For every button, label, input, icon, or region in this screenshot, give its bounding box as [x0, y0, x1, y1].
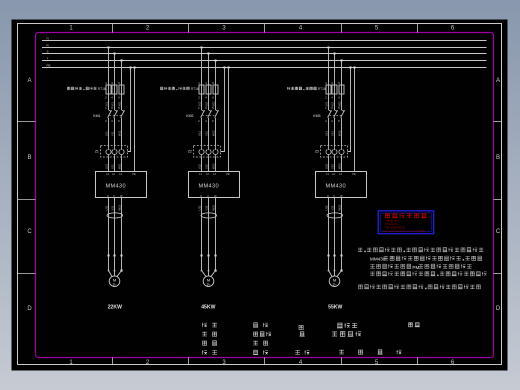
wire numbers fuse to contactor branch1 [105, 101, 121, 107]
wire phase3 bus to fuse FU3 [341, 61, 343, 86]
filter Z2 coil 2 [206, 146, 211, 158]
title block column 2 labels (process/standardization/approve/date) [253, 323, 271, 355]
junction dot bus tap phase2 branch2 [208, 53, 210, 55]
wire PE bus to filter Z1 [128, 68, 131, 152]
filter Z3 coil 2 [332, 146, 337, 158]
wire phase3 fuse to contactor KM1 [121, 94, 123, 110]
wire numbers U13 V13 W13 [324, 130, 341, 136]
wire phase1 fuse to contactor KM1 [108, 94, 110, 110]
wire phase2 bus to fuse FU1 [114, 54, 116, 86]
svg-text:S: S [47, 49, 49, 53]
title block drawing name text (hydraulic pump electric control system) [332, 323, 361, 336]
wire phase1 cable to motor M3 [328, 256, 330, 271]
svg-text:B: B [496, 155, 500, 161]
wire phase1 filter to drive U3 [328, 157, 330, 172]
wire phase3 cable to motor M2 [215, 256, 217, 271]
svg-text:U22: U22 [197, 164, 201, 169]
wire phase1 bus to fuse FU2 [201, 48, 203, 86]
wire phase3 contactor to filter Z1 [121, 118, 123, 146]
fuse FU3b [332, 85, 337, 94]
pin numbers 2 4 6 fuse FU1 [105, 96, 120, 100]
contactor KM3 main contact pole 1 [328, 110, 332, 118]
wire phase1 contactor to filter Z2 [201, 118, 203, 146]
motor M1 lead-in wires [109, 271, 122, 277]
contactor KM2 main contact pole 2 [208, 110, 212, 118]
wire phase2 bus to fuse FU3 [334, 54, 336, 86]
wire phase2 fuse to contactor KM1 [114, 94, 116, 110]
motor M1 terminal marks [108, 270, 123, 272]
wire phase2 contactor to filter Z3 [334, 118, 336, 146]
inner border (plot margin) [36, 33, 494, 358]
wire phase1 drive U3 output [328, 198, 330, 256]
contactor KM1 main contact pole 3 [121, 110, 125, 118]
contactor KM2 linkage dashed line [203, 114, 217, 116]
bus line R [42, 47, 487, 49]
pin numbers 1 3 5 fuse FU3 [325, 81, 340, 85]
title block drawing-name field label [299, 325, 305, 336]
watermark stamp title text [385, 213, 426, 217]
junction dot cable joint phase3 branch3 [341, 255, 343, 257]
frame column numbers bottom [69, 360, 455, 366]
svg-text:PE: PE [352, 173, 356, 176]
pin numbers 2 4 6 contactor KM1 [105, 119, 120, 123]
svg-text:MM430: MM430 [326, 184, 346, 190]
title block drawing-number field label [409, 323, 420, 327]
junction dot PE2 tap branch3 [354, 67, 356, 69]
junction dot cable joint phase2 branch1 [114, 255, 116, 257]
note text line 2 [370, 256, 482, 262]
frame column tick marks bottom [113, 358, 418, 365]
junction dot bus tap phase1 branch1 [108, 47, 110, 49]
drive U3 MM430 inverter [316, 172, 367, 198]
svg-text:V32: V32 [204, 205, 208, 210]
filter Z2 coil 3 [213, 146, 218, 158]
junction dot cable joint phase1 branch2 [201, 255, 203, 257]
wire phase3 bus to fuse FU2 [215, 61, 217, 86]
bus line N [42, 40, 487, 42]
fuse FU3a [326, 85, 331, 94]
svg-text:B: B [27, 155, 31, 161]
svg-text:KM1: KM1 [93, 114, 100, 118]
wire phase1 filter to drive U1 [108, 157, 110, 172]
junction dot cable joint phase3 branch1 [121, 255, 123, 257]
svg-text:W33: W33 [337, 204, 341, 210]
junction dot bus tap phase2 branch1 [114, 53, 116, 55]
wire numbers U11 V11 W11 [104, 130, 121, 136]
contactor KM3 linkage dashed line [330, 114, 343, 116]
pin numbers 1 3 5 fuse FU1 [105, 81, 120, 85]
svg-text:PE: PE [47, 63, 51, 67]
wire phase2 filter to drive U1 [114, 157, 116, 172]
svg-text:C: C [27, 229, 32, 235]
svg-text:W31: W31 [117, 204, 121, 210]
wire PE bus to drive U1 PE terminal [134, 68, 136, 172]
svg-text:V22: V22 [204, 164, 208, 169]
watermark stamp border [378, 211, 433, 234]
wire phase3 drive U2 output [215, 198, 217, 256]
drive U1 MM430 inverter [96, 172, 147, 198]
output ring core L1 [107, 213, 123, 218]
svg-text:A: A [27, 78, 31, 84]
junction dot bus tap phase1 branch2 [201, 47, 203, 49]
drive U1 input terminal labels L1 L2 L3 [106, 173, 122, 176]
wire numbers fuse to contactor branch3 [325, 101, 341, 107]
wire phase1 contactor to filter Z1 [108, 118, 110, 146]
svg-text:U: U [200, 195, 202, 198]
svg-text:A: A [496, 78, 500, 84]
pin numbers 2 4 6 fuse FU3 [325, 96, 340, 100]
wire phase1 filter to drive U2 [201, 157, 203, 172]
fuse FU1a [106, 85, 111, 94]
wire phase1 bus to fuse FU3 [328, 48, 330, 86]
wire phase1 drive U1 output [108, 198, 110, 256]
svg-text:V33: V33 [330, 205, 334, 210]
title block column 1 labels (design/draft/check/audit) [202, 323, 217, 355]
svg-text:W21: W21 [117, 163, 121, 169]
filter Z3 dashed enclosure [321, 146, 348, 158]
junction dot PE tap branch3 [350, 67, 352, 69]
value label fuse group FU1 [67, 87, 106, 91]
wire numbers U12 V12 W12 [197, 130, 215, 136]
motor M3 terminal marks [328, 270, 343, 272]
svg-text:Photoshop: Photoshop [385, 222, 398, 226]
svg-text:45KW: 45KW [201, 305, 215, 311]
wire numbers U21 V21 W21 [104, 163, 121, 169]
wire phase1 cable to motor M1 [108, 256, 110, 271]
pin numbers 2 4 6 fuse FU2 [198, 96, 214, 100]
contactor KM1 main contact pole 2 [114, 110, 118, 118]
frame row letters right [496, 78, 501, 312]
motor M2 terminal marks [201, 270, 217, 272]
svg-text:V23: V23 [330, 164, 334, 169]
svg-text:D: D [496, 306, 501, 312]
svg-text:web:www.xingotuku.com Q:337908: web:www.xingotuku.com Q:3379080 [383, 229, 426, 233]
svg-text:3~: 3~ [113, 283, 117, 287]
frame row tick marks right [494, 122, 502, 274]
junction dot bus tap phase2 branch3 [334, 53, 336, 55]
svg-text:MM430: MM430 [370, 257, 386, 262]
junction dot PE2 tap branch2 [228, 67, 230, 69]
bus line PE [42, 67, 487, 69]
motor M2 lead-in wires [202, 271, 216, 277]
note text line 3 [370, 264, 471, 270]
svg-text:D: D [27, 306, 32, 312]
svg-text:U33: U33 [324, 205, 328, 210]
wire numbers U32 V32 W32 [197, 204, 215, 210]
drive U3 output terminal labels U V W [327, 195, 343, 198]
svg-text:U21: U21 [104, 164, 108, 169]
fuse FU2a [199, 85, 204, 94]
filter Z1 dashed enclosure [101, 146, 128, 158]
svg-text:RT16: RT16 [318, 87, 326, 91]
contactor KM1 linkage dashed line [110, 114, 123, 116]
drive U2 input terminal labels L1 L2 L3 [199, 173, 216, 176]
junction dot PE tap branch2 [224, 67, 226, 69]
wire phase3 filter to drive U3 [341, 157, 343, 172]
output ring core L2 [201, 213, 217, 218]
contactor KM3 main contact pole 2 [334, 110, 338, 118]
contactor KM3 main contact pole 3 [341, 110, 345, 118]
svg-text:Z1: Z1 [95, 150, 99, 154]
svg-text:3~: 3~ [207, 283, 211, 287]
svg-text:W32: W32 [211, 204, 215, 210]
svg-text:W22: W22 [211, 163, 215, 169]
output ring core L3 [327, 213, 343, 218]
wire PE bus to drive U3 PE terminal [354, 68, 356, 172]
bus line T [42, 60, 487, 62]
fuse FU3c [339, 85, 344, 94]
value label fuse group FU3 [287, 87, 326, 91]
junction dot PE2 tap branch1 [134, 67, 136, 69]
wire phase1 bus to fuse FU1 [108, 48, 110, 86]
svg-text:V31: V31 [110, 205, 114, 210]
svg-text:55KW: 55KW [328, 305, 342, 311]
wire numbers fuse to contactor branch2 [198, 101, 215, 107]
junction dot cable joint phase1 branch3 [328, 255, 330, 257]
svg-text:RT16: RT16 [191, 87, 199, 91]
filter Z3 coil 1 [326, 146, 331, 158]
wire phase3 cable to motor M1 [121, 256, 123, 271]
drive U3 input terminal labels L1 L2 L3 [326, 173, 342, 176]
fuse FU1b [112, 85, 117, 94]
junction dot cable joint phase2 branch3 [334, 255, 336, 257]
svg-text:W23: W23 [337, 163, 341, 169]
svg-text:PM: PM [412, 265, 419, 270]
filter Z1 coil 1 [106, 146, 111, 158]
wire PE bus to filter Z2 [221, 68, 225, 152]
svg-text:U31: U31 [104, 205, 108, 210]
svg-text:C: C [496, 229, 501, 235]
wire phase2 fuse to contactor KM2 [208, 94, 210, 110]
wire phase2 cable to motor M1 [114, 256, 116, 271]
svg-text:V11: V11 [110, 131, 114, 136]
svg-text:W11: W11 [117, 130, 121, 136]
svg-text:V21: V21 [110, 164, 114, 169]
wire phase2 contactor to filter Z2 [208, 118, 210, 146]
svg-text:RT16: RT16 [98, 87, 106, 91]
value label fuse group FU2 [160, 87, 199, 91]
motor M2 [203, 276, 214, 287]
svg-text:TEL:1399138138: TEL:1399138138 [385, 225, 405, 229]
title block scale label [295, 350, 309, 354]
svg-text:N: N [47, 36, 49, 40]
svg-text:V12: V12 [204, 131, 208, 136]
wire phase3 filter to drive U1 [121, 157, 123, 172]
watermark stamp contact lines [383, 219, 426, 233]
svg-text:U23: U23 [324, 164, 328, 169]
svg-text:U11: U11 [104, 131, 108, 136]
svg-text:U32: U32 [197, 205, 201, 210]
wire phase3 filter to drive U2 [215, 157, 217, 172]
contactor KM2 main contact pole 3 [215, 110, 219, 118]
wire phase3 fuse to contactor KM3 [341, 94, 343, 110]
junction dot bus tap phase1 branch3 [328, 47, 330, 49]
svg-text:T: T [47, 56, 49, 60]
wire phase2 drive U3 output [334, 198, 336, 256]
wire phase3 cable to motor M3 [341, 256, 343, 271]
svg-text:W13: W13 [337, 130, 341, 136]
svg-text:U13: U13 [324, 131, 328, 136]
pin numbers 2 4 6 contactor KM2 [198, 119, 214, 123]
wire phase1 contactor to filter Z3 [328, 118, 330, 146]
wire phase2 drive U1 output [114, 198, 116, 256]
note text line 1 [358, 248, 483, 253]
svg-text:W12: W12 [211, 130, 215, 136]
svg-text:KM2: KM2 [186, 114, 193, 118]
wire phase2 bus to fuse FU2 [208, 54, 210, 86]
wire phase2 cable to motor M3 [334, 256, 336, 271]
filter Z1 coil 2 [112, 146, 117, 158]
motor M3 lead-in wires [329, 271, 342, 277]
wire phase2 filter to drive U2 [208, 157, 210, 172]
title block sheet count labels [339, 350, 401, 354]
drive U2 MM430 inverter [189, 172, 240, 198]
junction dot bus tap phase3 branch3 [341, 60, 343, 62]
wire phase2 contactor to filter Z1 [114, 118, 116, 146]
svg-text:PE: PE [132, 173, 136, 176]
svg-text:V13: V13 [330, 131, 334, 136]
pin numbers 1 3 5 fuse FU2 [198, 81, 214, 85]
junction dot cable joint phase1 branch1 [108, 255, 110, 257]
svg-text:22KW: 22KW [108, 305, 122, 311]
pin numbers 1 3 5 contactor KM1 [105, 106, 120, 110]
svg-text:Z2: Z2 [188, 150, 192, 154]
svg-text:PE: PE [226, 173, 230, 176]
wire numbers U33 V33 W33 [324, 204, 341, 210]
wire phase3 contactor to filter Z2 [215, 118, 217, 146]
wire phase1 fuse to contactor KM2 [201, 94, 203, 110]
junction dot bus tap phase3 branch1 [121, 60, 123, 62]
wire phase3 bus to fuse FU1 [121, 61, 123, 86]
bus line S [42, 53, 487, 55]
svg-text:3~: 3~ [333, 283, 337, 287]
frame row letters left [27, 78, 32, 312]
junction dot cable joint phase3 branch2 [215, 255, 217, 257]
filter Z3 coil 3 [339, 146, 344, 158]
motor M3 [329, 276, 340, 287]
junction dot PE tap branch1 [130, 67, 132, 69]
pin numbers 1 3 5 contactor KM2 [198, 106, 214, 110]
wire numbers U23 V23 W23 [324, 163, 341, 169]
svg-text:U: U [107, 195, 109, 198]
note text line 4 [370, 272, 486, 277]
motor M1 [109, 276, 120, 287]
pin numbers 2 4 6 contactor KM3 [325, 119, 340, 123]
wire numbers U22 V22 W22 [197, 163, 215, 169]
svg-text:MM430: MM430 [106, 184, 126, 190]
wire phase2 fuse to contactor KM3 [334, 94, 336, 110]
note text line 5 [359, 285, 481, 290]
contactor KM1 main contact pole 1 [108, 110, 112, 118]
wire phase1 fuse to contactor KM3 [328, 94, 330, 110]
wire phase1 cable to motor M2 [201, 256, 203, 271]
wire phase2 drive U2 output [208, 198, 210, 256]
wire phase3 contactor to filter Z3 [341, 118, 343, 146]
svg-text:KM3: KM3 [313, 114, 320, 118]
wire numbers U31 V31 W31 [104, 204, 121, 210]
wire phase3 drive U1 output [121, 198, 123, 256]
wire phase2 cable to motor M2 [208, 256, 210, 271]
frame row tick marks left [18, 122, 36, 274]
filter Z1 coil 3 [119, 146, 124, 158]
contactor KM2 main contact pole 1 [201, 110, 205, 118]
fuse FU2b [206, 85, 211, 94]
frame column tick marks top [113, 24, 418, 33]
wire phase3 drive U3 output [341, 198, 343, 256]
wire phase3 fuse to contactor KM2 [215, 94, 217, 110]
svg-text:U12: U12 [197, 131, 201, 136]
fuse FU2c [213, 85, 218, 94]
svg-text:Z3: Z3 [315, 150, 319, 154]
wire phase2 filter to drive U3 [334, 157, 336, 172]
filter Z2 dashed enclosure [194, 146, 221, 158]
junction dot bus tap phase3 branch2 [215, 60, 217, 62]
wire phase1 drive U2 output [201, 198, 203, 256]
frame column numbers top [69, 25, 455, 31]
drive U1 output terminal labels U V W [107, 195, 123, 198]
pin numbers 1 3 5 contactor KM3 [325, 106, 340, 110]
filter Z2 coil 1 [199, 146, 204, 158]
wire PE bus to filter Z3 [348, 68, 351, 152]
junction dot cable joint phase2 branch2 [208, 255, 210, 257]
svg-text:U: U [327, 195, 329, 198]
drive U2 output terminal labels U V W [200, 195, 217, 198]
fuse FU1c [119, 85, 124, 94]
wire PE bus to drive U2 PE terminal [228, 68, 230, 172]
svg-text:MM430: MM430 [199, 184, 219, 190]
